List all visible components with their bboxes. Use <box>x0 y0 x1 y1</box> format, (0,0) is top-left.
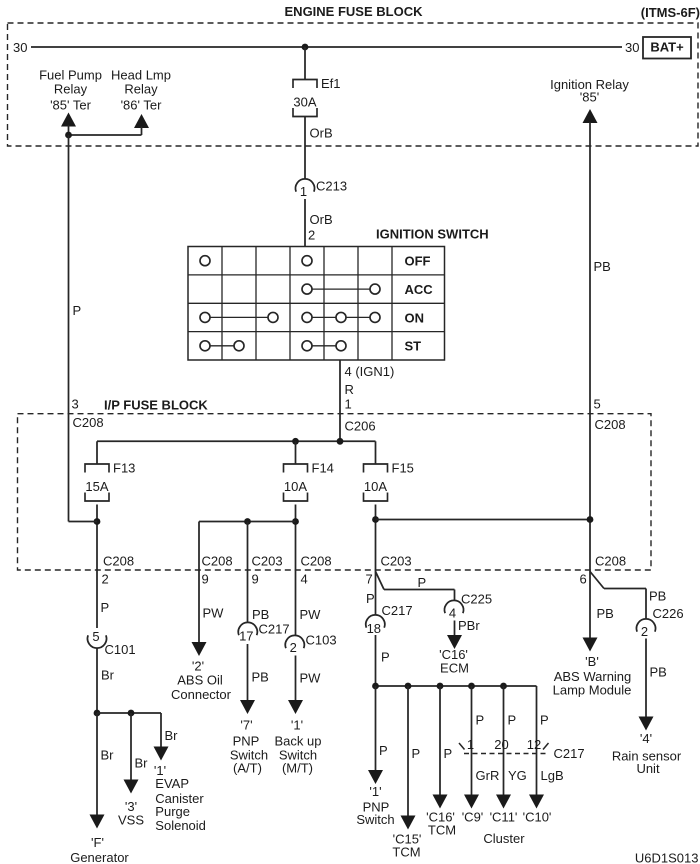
svg-text:P: P <box>444 746 453 761</box>
wire F14 branch left <box>199 521 296 523</box>
connector C101 pin 5 <box>87 635 106 648</box>
connector C217 pin 17 <box>238 622 257 635</box>
wire branch horizontal <box>97 712 161 714</box>
svg-text:C103: C103 <box>306 633 337 648</box>
ignition switch table frame <box>188 247 445 361</box>
wire F13 output <box>96 505 98 571</box>
node F14 junction <box>292 438 299 445</box>
table row lines <box>188 274 445 276</box>
wire F14 output <box>295 505 297 571</box>
svg-text:PW: PW <box>300 671 322 686</box>
wire P left drop <box>68 135 70 522</box>
wire P branch horizontal <box>384 589 455 591</box>
node VSS branch junction <box>128 710 135 717</box>
svg-text:P: P <box>540 713 549 728</box>
wire relay branch <box>69 134 142 136</box>
svg-text:2: 2 <box>290 640 297 655</box>
node bus junction 4 <box>468 683 475 690</box>
svg-text:2: 2 <box>641 624 648 639</box>
svg-text:17: 17 <box>239 629 253 644</box>
svg-text:C208: C208 <box>202 554 233 569</box>
node bus junction 1 <box>372 683 379 690</box>
svg-text:PB: PB <box>252 607 269 622</box>
node branch junction <box>244 518 251 525</box>
svg-text:P: P <box>476 713 485 728</box>
svg-text:ACC: ACC <box>405 282 434 297</box>
svg-text:Br: Br <box>101 668 115 683</box>
arrow to rain sensor <box>639 717 654 731</box>
svg-text:GrR: GrR <box>476 768 500 783</box>
arrow to ECM <box>447 635 462 649</box>
I/P fuse block dashed border <box>18 414 652 570</box>
svg-text:1: 1 <box>345 397 352 412</box>
wire down to C225 <box>454 590 456 602</box>
connector C225 pin 4 <box>445 600 464 613</box>
wire P to cluster C9 <box>471 686 473 795</box>
ON row contacts <box>200 312 210 322</box>
svg-text:4: 4 <box>301 572 308 587</box>
wire 4 IGN1 from switch <box>339 360 341 441</box>
svg-text:1: 1 <box>467 737 474 752</box>
svg-text:5: 5 <box>594 397 601 412</box>
svg-text:'7': '7' <box>240 718 252 733</box>
arrow to cluster C9 <box>464 795 479 809</box>
svg-text:4: 4 <box>449 606 456 621</box>
svg-text:Switch: Switch <box>356 812 394 827</box>
svg-text:F15: F15 <box>392 461 414 476</box>
svg-text:Cluster: Cluster <box>483 831 525 846</box>
node bus junction 2 <box>405 683 412 690</box>
svg-text:P: P <box>366 591 375 606</box>
svg-text:LgB: LgB <box>541 768 564 783</box>
svg-text:C208: C208 <box>595 417 626 432</box>
wire to F14 <box>295 441 297 464</box>
svg-text:30A: 30A <box>293 95 316 110</box>
svg-text:PW: PW <box>203 606 225 621</box>
svg-text:'F': 'F' <box>91 835 104 850</box>
BAT+ terminal box <box>643 37 691 59</box>
node F14 output junction <box>292 518 299 525</box>
svg-text:TCM: TCM <box>428 823 456 838</box>
svg-text:YG: YG <box>508 768 527 783</box>
wire PB to ABS warning lamp <box>589 570 591 638</box>
svg-text:Relay: Relay <box>54 82 88 97</box>
wire PB right drop <box>589 122 591 570</box>
wire to fuse Ef1 <box>304 47 306 80</box>
svg-text:'4': '4' <box>640 731 652 746</box>
arrow to backup switch M/T <box>288 700 303 714</box>
wire PW to ABS oil connector <box>198 570 200 643</box>
svg-text:C217: C217 <box>259 622 290 637</box>
svg-text:OFF: OFF <box>405 254 431 269</box>
svg-text:PW: PW <box>300 607 322 622</box>
table column lines <box>221 247 223 361</box>
wire Br to generator <box>96 713 98 816</box>
fuse F13 15A <box>85 464 109 473</box>
wire distribution bus <box>376 685 537 687</box>
svg-text:'B': 'B' <box>585 654 599 669</box>
OFF row contacts <box>200 256 210 266</box>
connector C103 pin 2 <box>285 635 304 648</box>
svg-text:P: P <box>508 713 517 728</box>
wire P to C15 TCM <box>407 686 409 816</box>
svg-text:P: P <box>412 746 421 761</box>
svg-text:R: R <box>345 382 354 397</box>
arrow to PNP switch A/T <box>240 700 255 714</box>
svg-text:7: 7 <box>366 572 373 587</box>
svg-text:12: 12 <box>527 737 541 752</box>
wire PW to backup switch <box>295 656 297 701</box>
node F13 branch junction <box>94 518 101 525</box>
svg-text:F13: F13 <box>113 461 135 476</box>
svg-text:P: P <box>418 575 427 590</box>
svg-text:Br: Br <box>165 728 179 743</box>
wire pin7 fork diagonal <box>376 572 385 590</box>
wire branch drop C203-9 <box>247 522 249 571</box>
svg-text:P: P <box>381 650 390 665</box>
svg-text:PNP: PNP <box>233 734 260 749</box>
svg-text:C101: C101 <box>105 642 136 657</box>
wire Br to EVAP <box>160 713 162 748</box>
wire OrB below Ef1 <box>304 117 306 180</box>
svg-text:U6D1S013: U6D1S013 <box>635 851 699 864</box>
svg-text:Fuel Pump: Fuel Pump <box>39 68 102 83</box>
wire P to cluster C10 <box>536 686 538 795</box>
svg-text:30: 30 <box>625 40 639 55</box>
wire Br below C101 <box>96 648 98 713</box>
node junction on 30 bus <box>302 44 309 51</box>
svg-text:6: 6 <box>580 572 587 587</box>
arrow to Ignition Relay <box>583 109 598 123</box>
arrow to cluster C10 <box>529 795 544 809</box>
svg-text:IGNITION SWITCH: IGNITION SWITCH <box>376 227 489 242</box>
svg-text:'2': '2' <box>192 659 204 674</box>
svg-text:(A/T): (A/T) <box>233 761 262 776</box>
svg-text:OrB: OrB <box>310 126 333 141</box>
svg-text:Br: Br <box>135 756 149 771</box>
svg-text:'85' Ter: '85' Ter <box>50 98 92 113</box>
fuse F15 10A <box>364 464 388 473</box>
node bus junction 5 <box>500 683 507 690</box>
svg-text:C208: C208 <box>103 554 134 569</box>
svg-text:C206: C206 <box>345 419 376 434</box>
arrow to ABS oil connector <box>192 642 207 656</box>
svg-text:P: P <box>101 600 110 615</box>
wire branch drop C208-9 <box>198 522 200 571</box>
wire P to distribution bus <box>375 635 377 686</box>
svg-text:3: 3 <box>72 397 79 412</box>
svg-text:PB: PB <box>594 259 611 274</box>
svg-text:Solenoid: Solenoid <box>155 818 206 833</box>
svg-text:'C11': 'C11' <box>490 810 518 825</box>
svg-text:P: P <box>379 743 388 758</box>
wire PW to C103 pin 2 <box>295 570 297 636</box>
wire PB to C217 pin 17 <box>247 570 249 623</box>
svg-text:'85': '85' <box>580 90 599 105</box>
svg-text:Relay: Relay <box>124 82 158 97</box>
svg-text:ST: ST <box>405 339 422 354</box>
svg-text:PBr: PBr <box>458 618 480 633</box>
svg-text:(M/T): (M/T) <box>282 761 313 776</box>
svg-text:C213: C213 <box>316 179 347 194</box>
wire F15 output <box>375 505 377 571</box>
arrow to Head Lmp Relay <box>134 114 149 128</box>
svg-text:BAT+: BAT+ <box>650 40 684 55</box>
svg-text:VSS: VSS <box>118 813 144 828</box>
svg-text:18: 18 <box>367 621 381 636</box>
svg-text:Br: Br <box>101 748 115 763</box>
node relay branch junction <box>65 132 72 139</box>
svg-text:EVAP: EVAP <box>155 776 189 791</box>
svg-text:1: 1 <box>300 184 307 199</box>
node bus junction 3 <box>437 683 444 690</box>
node C206 junction <box>337 438 344 445</box>
wire P to PNP switch <box>375 686 377 771</box>
svg-text:20: 20 <box>494 737 508 752</box>
svg-text:ENGINE FUSE BLOCK: ENGINE FUSE BLOCK <box>285 4 424 19</box>
svg-text:10A: 10A <box>364 479 387 494</box>
svg-text:(ITMS-6F): (ITMS-6F) <box>641 5 700 20</box>
svg-text:C217: C217 <box>554 746 585 761</box>
svg-text:C217: C217 <box>382 603 413 618</box>
svg-text:ECM: ECM <box>440 661 469 676</box>
svg-text:Purge: Purge <box>155 804 190 819</box>
wire to F15 <box>375 441 377 464</box>
node PB wire junction <box>587 516 594 523</box>
arrow to VSS <box>124 780 139 794</box>
wire Br to VSS <box>130 713 132 781</box>
svg-text:Ef1: Ef1 <box>321 76 341 91</box>
node F15 output junction <box>372 516 379 523</box>
connector C213 pin 1 <box>296 179 315 192</box>
svg-text:10A: 10A <box>284 479 307 494</box>
wire P main to C217 pin 18 <box>375 570 377 615</box>
svg-text:2: 2 <box>308 228 315 243</box>
svg-text:Lamp Module: Lamp Module <box>553 683 632 698</box>
wire left P joins F13 output <box>69 521 98 523</box>
wire P to C16 TCM <box>439 686 441 795</box>
svg-text:'1': '1' <box>291 718 303 733</box>
wire to F13 <box>96 441 98 464</box>
wire pin6 fork diagonal <box>590 572 604 589</box>
svg-text:C203: C203 <box>381 554 412 569</box>
svg-text:TCM: TCM <box>392 845 420 860</box>
svg-text:'C9': 'C9' <box>462 810 484 825</box>
svg-text:Back up: Back up <box>275 734 322 749</box>
svg-text:F14: F14 <box>312 461 334 476</box>
svg-text:OrB: OrB <box>310 212 333 227</box>
svg-text:PB: PB <box>650 665 667 680</box>
arrow to C16 TCM <box>433 795 448 809</box>
arrow to cluster C11 <box>496 795 511 809</box>
svg-text:PB: PB <box>597 606 614 621</box>
fuse Ef1 30A <box>293 80 317 89</box>
connector C226 pin 2 <box>637 619 656 632</box>
arrow to ABS warning lamp module <box>583 638 598 652</box>
wire PBr to ECM <box>454 621 456 637</box>
ACC row contacts <box>302 284 312 294</box>
connector C217 pin 18 <box>366 615 385 628</box>
svg-text:ABS Oil: ABS Oil <box>177 673 223 688</box>
wire P to cluster C11 <box>503 686 505 795</box>
svg-text:9: 9 <box>252 572 259 587</box>
svg-text:30: 30 <box>13 40 27 55</box>
svg-text:9: 9 <box>202 572 209 587</box>
svg-text:'1': '1' <box>369 784 381 799</box>
ST row contacts <box>200 341 210 351</box>
fuse F14 10A <box>284 464 308 473</box>
svg-text:C208: C208 <box>301 554 332 569</box>
wire PB branch horizontal <box>604 588 646 590</box>
svg-text:PB: PB <box>252 670 269 685</box>
node generator branch junction <box>94 710 101 717</box>
wire fuse feed bus <box>97 440 376 442</box>
arrow to EVAP solenoid <box>154 747 169 761</box>
svg-text:4 (IGN1): 4 (IGN1) <box>345 364 395 379</box>
arrow to PNP switch <box>368 770 383 784</box>
svg-text:ON: ON <box>405 310 425 325</box>
wire PB to PNP switch <box>247 644 249 701</box>
svg-text:Unit: Unit <box>636 761 660 776</box>
arrow to Fuel Pump Relay <box>61 113 76 127</box>
wire P to C101 <box>96 570 98 628</box>
svg-text:C225: C225 <box>461 592 492 607</box>
arrow to generator <box>90 815 105 829</box>
wire PB to rain sensor <box>645 639 647 718</box>
svg-text:C203: C203 <box>252 554 283 569</box>
svg-text:C208: C208 <box>595 554 626 569</box>
wire OrB to ignition switch <box>304 199 306 247</box>
svg-text:Generator: Generator <box>70 850 129 864</box>
svg-text:'86' Ter: '86' Ter <box>121 98 163 113</box>
wire down to C226 <box>645 589 647 620</box>
wire 30 bus <box>31 46 622 48</box>
svg-text:2: 2 <box>102 572 109 587</box>
svg-text:Connector: Connector <box>171 687 232 702</box>
svg-text:Head Lmp: Head Lmp <box>111 68 171 83</box>
svg-text:5: 5 <box>92 629 99 644</box>
engine fuse block dashed border <box>8 23 699 146</box>
svg-text:C208: C208 <box>73 415 104 430</box>
arrow to C15 TCM <box>401 816 416 830</box>
svg-text:P: P <box>73 303 82 318</box>
svg-text:15A: 15A <box>85 479 108 494</box>
svg-text:PB: PB <box>649 589 666 604</box>
svg-text:C226: C226 <box>653 606 684 621</box>
svg-text:'C10': 'C10' <box>523 810 552 825</box>
wire F15 branch right to PB wire <box>376 519 591 521</box>
connector C217 inline dashed <box>464 753 547 755</box>
svg-text:I/P FUSE BLOCK: I/P FUSE BLOCK <box>104 398 208 413</box>
